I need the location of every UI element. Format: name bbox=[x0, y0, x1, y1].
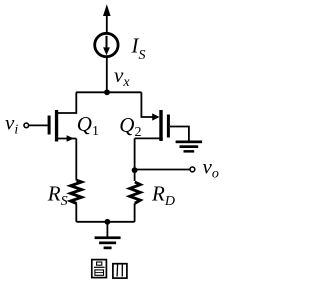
wire vx vertical bbox=[106, 57, 108, 93]
node vo junction dot bbox=[132, 167, 138, 173]
wire ground stub bbox=[106, 222, 108, 237]
node vx junction dot bbox=[104, 89, 110, 95]
wire RS to bottom rail bbox=[75, 203, 77, 221]
terminal vi bbox=[24, 123, 29, 128]
ground bottom bbox=[95, 236, 121, 249]
wire Q2 drain down to vo node bbox=[134, 138, 136, 170]
wire vo node to RD bbox=[134, 170, 136, 181]
current source IS bbox=[95, 33, 118, 56]
terminal vo bbox=[190, 167, 195, 172]
wire bottom rail bbox=[76, 221, 134, 223]
resistor RD bbox=[130, 182, 141, 203]
wire RD to bottom rail bbox=[134, 203, 136, 221]
wire Q1 source down bbox=[75, 139, 77, 181]
wire top rail bbox=[76, 91, 141, 93]
caption figure 4 (圖 四) bbox=[92, 260, 127, 279]
transistor Q2 bbox=[135, 110, 170, 141]
wire vo horizontal bbox=[135, 169, 190, 171]
resistor RS bbox=[71, 180, 82, 203]
transistor Q1 bbox=[48, 110, 77, 142]
wire vi to gate bbox=[29, 124, 48, 126]
wire Q2 gate to ground bbox=[170, 127, 189, 141]
node bottom junction dot bbox=[105, 219, 111, 225]
ground right bbox=[176, 141, 203, 153]
wire Q2 source connection bbox=[141, 92, 158, 117]
wire top supply arrow bbox=[103, 4, 111, 33]
wire Q1 drain connection bbox=[57, 92, 76, 113]
